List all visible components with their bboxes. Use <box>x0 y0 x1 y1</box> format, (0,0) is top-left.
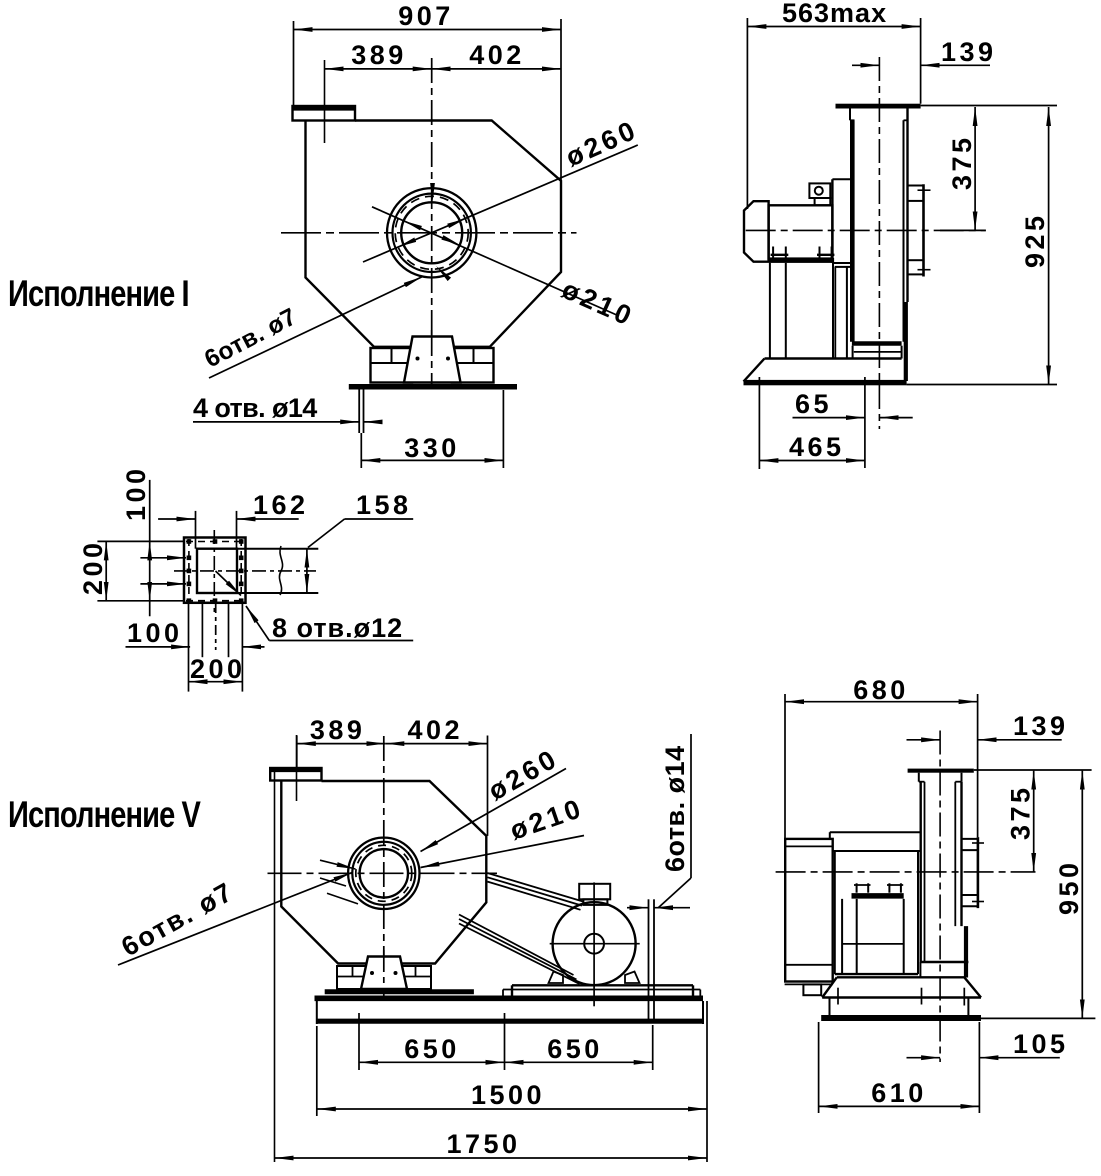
casing duct walls <box>920 782 922 962</box>
base frame body <box>316 1001 318 1024</box>
dimension 65 <box>793 417 865 419</box>
motor foot <box>803 984 821 995</box>
inlet circle outer <box>348 838 419 909</box>
extension centerline 375 <box>940 229 986 231</box>
svg-text:105: 105 <box>1013 1029 1069 1059</box>
stand column right <box>832 263 834 359</box>
inlet circle middle <box>393 194 471 272</box>
svg-text:6отв. ø7: 6отв. ø7 <box>200 303 301 373</box>
svg-text:ø260: ø260 <box>483 743 564 806</box>
inlet circle middle <box>352 842 415 905</box>
casing bottom plate <box>852 341 902 346</box>
duct bottom line <box>237 592 318 594</box>
svg-text:ø260: ø260 <box>561 114 642 172</box>
base pedestal <box>765 357 902 359</box>
stand mount bar <box>852 893 904 899</box>
svg-text:100: 100 <box>127 618 183 648</box>
dimension 402 <box>432 68 561 70</box>
bottom extension lines <box>188 603 190 692</box>
svg-text:Исполнение I: Исполнение I <box>8 274 189 315</box>
casing bottom block <box>920 961 968 963</box>
svg-text:139: 139 <box>1013 711 1069 741</box>
base plate <box>349 384 517 390</box>
small arrow top of bolt circle <box>432 185 434 202</box>
bearing shelf <box>833 850 921 852</box>
discharge flange <box>270 768 321 781</box>
pulley crosshair <box>550 943 640 945</box>
inlet collar side <box>922 184 925 276</box>
horizontal centerline <box>268 872 498 874</box>
dimension 907 <box>293 21 295 106</box>
svg-text:389: 389 <box>351 40 407 70</box>
dimension 465 <box>759 460 865 462</box>
svg-text:563max: 563max <box>782 0 887 28</box>
collar tick top <box>918 189 931 191</box>
bracket hole right <box>446 357 450 361</box>
flange inner square <box>197 549 237 593</box>
dimension 389 (V) <box>296 736 298 769</box>
dimension 1500 <box>316 1026 318 1116</box>
svg-text:389: 389 <box>310 715 366 745</box>
dimension 650 right <box>652 1025 654 1070</box>
right foot block <box>400 966 431 989</box>
bolt line left <box>188 539 190 603</box>
svg-text:200: 200 <box>78 539 108 595</box>
support bracket trapezoid <box>361 957 407 990</box>
svg-text:650: 650 <box>404 1034 460 1064</box>
belt upper <box>488 873 584 902</box>
svg-text:Исполнение V: Исполнение V <box>8 795 201 836</box>
leader 6отв. ø7 <box>118 873 352 966</box>
svg-text:610: 610 <box>871 1078 927 1108</box>
extension flange top right <box>974 769 1092 771</box>
motor foot left <box>549 972 564 984</box>
dimension 950 <box>1081 771 1083 1019</box>
svg-text:907: 907 <box>398 1 454 31</box>
dimension 105 <box>907 1057 941 1059</box>
motor axis centerline <box>746 229 986 231</box>
motor mount bracket <box>831 179 833 263</box>
dimension 1750 <box>275 1157 708 1159</box>
bolt line right <box>240 539 242 603</box>
motor foot left <box>772 247 774 258</box>
dimension 650 left <box>358 1013 360 1070</box>
svg-text:ø210: ø210 <box>558 274 639 332</box>
extension inner square up <box>195 511 197 549</box>
svg-text:1500: 1500 <box>471 1080 545 1110</box>
collar tick bottom <box>918 269 931 271</box>
svg-text:680: 680 <box>853 675 909 705</box>
dimension 200 left <box>105 541 107 600</box>
svg-text:4 отв. ø14: 4 отв. ø14 <box>193 393 317 423</box>
hole 4отв ø14 lines <box>358 390 360 434</box>
dimension 563max <box>746 18 748 209</box>
inner diagonal leader <box>216 571 242 596</box>
inlet circle inner <box>401 202 462 263</box>
dimension 139 <box>852 64 879 66</box>
dimension 389 <box>325 68 432 70</box>
svg-text:162: 162 <box>253 490 309 520</box>
stand outer <box>834 851 836 974</box>
stand columns <box>841 899 843 974</box>
hole 6отв ø14 lines <box>648 899 650 1019</box>
svg-text:402: 402 <box>469 40 525 70</box>
dimension 680 <box>784 694 786 839</box>
main base frame top bar <box>315 995 704 1001</box>
svg-text:650: 650 <box>547 1034 603 1064</box>
break squiggle <box>279 546 282 595</box>
extension base bottom right <box>981 1017 1095 1019</box>
small arrow bottom of bolt circle <box>436 266 444 274</box>
fan casing octagon outline <box>281 781 486 964</box>
bolt line top <box>186 541 244 543</box>
dimension 925 <box>1048 107 1050 385</box>
extension flange top right <box>921 105 1057 107</box>
flange outer square <box>184 538 246 603</box>
flange centerline <box>324 60 326 143</box>
support bracket trapezoid <box>404 337 461 383</box>
motor foot right <box>819 247 821 258</box>
base feet <box>829 998 831 1016</box>
motor foot right <box>625 972 640 984</box>
stand column left <box>769 263 771 359</box>
leader ø260 <box>363 145 638 262</box>
base bottom plate <box>821 1015 981 1021</box>
duct centerline <box>939 731 941 1063</box>
motor terminal box <box>579 884 610 900</box>
flange horizontal centerline <box>174 570 316 572</box>
leader ø210 <box>372 207 619 316</box>
stand feet ticks <box>856 883 858 892</box>
dimension 6отв. ø14 <box>627 907 649 909</box>
flange collar <box>918 773 920 782</box>
motor pulley <box>553 902 636 985</box>
flange centerline <box>296 735 298 801</box>
bottom connecting line <box>835 973 918 975</box>
svg-text:465: 465 <box>789 432 845 462</box>
base bottom plate <box>744 380 907 385</box>
svg-text:402: 402 <box>408 715 464 745</box>
duct centerline <box>878 57 880 429</box>
bolt circle dashed <box>356 845 412 901</box>
fan base plate <box>325 989 474 994</box>
svg-text:6отв. ø14: 6отв. ø14 <box>660 745 690 872</box>
svg-text:1750: 1750 <box>446 1129 520 1159</box>
duct top line <box>237 548 318 550</box>
bracket hole left <box>416 357 420 361</box>
dimension 4 отв. ø14 <box>193 421 359 423</box>
motor body <box>769 205 833 258</box>
base frame bottom bar <box>317 1019 704 1024</box>
fan hub small strokes <box>320 860 356 869</box>
svg-text:158: 158 <box>356 490 412 520</box>
pulley hub <box>584 934 604 954</box>
dimension 375 (V) <box>1033 771 1035 872</box>
motor body side <box>785 839 833 982</box>
left foot block <box>337 966 368 989</box>
vertical centerline <box>431 58 433 392</box>
fan casing octagon outline <box>306 121 562 347</box>
dimension 100 top <box>149 480 151 616</box>
bracket holes <box>370 971 374 975</box>
left extension lines <box>97 540 184 542</box>
dimension 100 bottom <box>126 646 191 648</box>
vertical centerline <box>383 736 385 996</box>
right foot block <box>452 348 494 383</box>
dimension 162 <box>158 518 195 520</box>
leader ø260 <box>421 769 567 852</box>
bolt holes <box>187 539 244 603</box>
casing right wall heavy lower <box>964 926 968 977</box>
left foot block <box>371 348 413 383</box>
svg-text:330: 330 <box>404 433 460 463</box>
terminal box <box>809 183 830 198</box>
svg-text:8 отв.ø12: 8 отв.ø12 <box>272 613 403 643</box>
outlet flange bar <box>836 104 921 109</box>
dimension 330 <box>360 433 362 468</box>
left extension line tall (1750) <box>274 768 276 1162</box>
svg-text:925: 925 <box>1020 212 1050 268</box>
bolt circle dashed <box>395 196 468 269</box>
svg-text:950: 950 <box>1054 859 1084 915</box>
leader 6отв. ø7 <box>209 277 422 378</box>
outlet flange bar <box>908 769 974 773</box>
motor front cap <box>744 201 769 262</box>
base skirt <box>837 976 965 978</box>
dimension 139 (V) <box>907 739 941 741</box>
dimension 200 bottom <box>189 681 243 683</box>
svg-text:200: 200 <box>190 654 246 684</box>
casing duct walls <box>850 120 855 341</box>
horizontal centerline <box>281 232 577 234</box>
casing right wall heavy lower <box>904 302 908 381</box>
svg-text:375: 375 <box>1006 784 1036 840</box>
svg-text:6отв. ø7: 6отв. ø7 <box>116 876 238 962</box>
motor rail <box>512 984 693 986</box>
svg-text:375: 375 <box>947 134 977 190</box>
dimension 610 <box>818 1022 820 1113</box>
extension 65/465 <box>864 377 866 468</box>
casing shelf top-left <box>830 831 921 833</box>
inlet collar side <box>977 837 980 908</box>
svg-text:139: 139 <box>941 37 997 67</box>
svg-text:65: 65 <box>795 389 832 419</box>
inlet circle inner <box>360 849 408 897</box>
collar ticks <box>972 842 984 844</box>
base bolt ticks <box>837 988 839 1005</box>
fan axis centerline <box>776 871 1036 873</box>
leader ø210 <box>421 836 585 868</box>
dimension 402 (V) <box>385 743 487 745</box>
extension base bottom right <box>907 384 1057 386</box>
discharge flange <box>293 106 356 121</box>
svg-text:100: 100 <box>121 465 151 521</box>
flange vertical centerline <box>213 530 215 612</box>
bolt line bottom <box>186 600 244 602</box>
flange collar <box>849 109 851 121</box>
inlet circle outer <box>387 188 476 277</box>
belt lower <box>459 915 574 976</box>
motor mount plate <box>769 258 834 263</box>
dimension 375 <box>974 107 976 230</box>
